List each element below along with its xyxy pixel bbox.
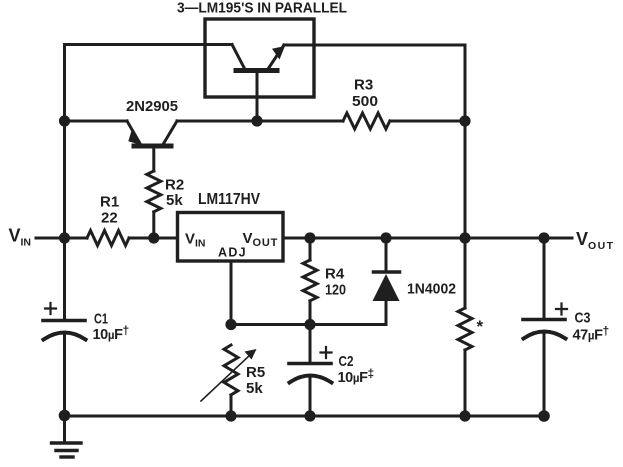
diode D1 cathode bar (374, 270, 400, 274)
svg-text:22: 22 (101, 210, 118, 227)
wire: VIN node to R1 (65, 237, 88, 240)
diode D1 body (373, 274, 400, 301)
node: right rail output junction (459, 232, 470, 243)
wire: U1 VOUT to output rail (285, 237, 572, 240)
wire: output rail to C3 (543, 238, 546, 318)
wire: left rail to 2N2905 emitter (65, 120, 128, 123)
svg-text:VIN: VIN (9, 226, 32, 249)
R5 wiper arrow (201, 355, 250, 401)
wire: U1 ADJ pin (230, 262, 233, 325)
LM195 module box (205, 19, 314, 97)
svg-text:5k: 5k (166, 192, 183, 209)
svg-text:R3: R3 (354, 77, 373, 94)
svg-text:R5: R5 (246, 364, 265, 381)
wire: Q1 base to R2 (152, 148, 155, 171)
svg-text:10µF‡: 10µF‡ (338, 367, 374, 387)
wire: R1 to LM117 VIN pin (129, 237, 177, 240)
node: ADJ / R5 junction (225, 319, 236, 330)
wire: C3 to ground (543, 332, 546, 416)
IC U1 LM117HV box (178, 213, 284, 262)
resistor R1 (87, 231, 129, 246)
wire: 2N2905 collector to R3 (177, 120, 343, 123)
node: R4 bottom / C2 top (304, 319, 315, 330)
wire: star resistor to ground (464, 350, 467, 416)
svg-text:VOUT: VOUT (576, 229, 614, 252)
wire: right rail to star resistor (464, 238, 467, 308)
resistor R2 (147, 171, 161, 212)
svg-text:ADJ: ADJ (218, 246, 247, 260)
svg-text:47µF†: 47µF† (573, 324, 609, 344)
node: R2 bottom junction (148, 232, 159, 243)
svg-text:2N2905: 2N2905 (126, 98, 178, 115)
svg-text:1N4002: 1N4002 (407, 281, 456, 298)
wire: right rail mid (464, 121, 467, 238)
wire: C2 to ground (309, 376, 312, 416)
wire: left rail mid (63, 121, 66, 238)
capacitor C3 plus sign (556, 304, 567, 315)
resistor R4 (303, 260, 317, 301)
svg-text:R1: R1 (100, 194, 119, 211)
transistor U2 base lead wire (256, 72, 259, 121)
node: right rail ground junction (459, 410, 470, 421)
wire: ADJ rail to C2 (309, 325, 312, 363)
svg-text:5k: 5k (246, 380, 263, 397)
wire: left rail to C1 (63, 238, 66, 319)
node: right rail / R3 (459, 115, 470, 126)
wire: R3 to right rail (390, 120, 465, 123)
svg-text:3—LM195'S IN PARALLEL: 3—LM195'S IN PARALLEL (177, 1, 347, 17)
svg-text:C1: C1 (94, 311, 108, 328)
wire: R5 bottom lead (230, 395, 233, 416)
node: C3 ground junction (538, 410, 550, 422)
capacitor C2 top plate (289, 362, 331, 366)
svg-text:C2: C2 (339, 353, 354, 370)
node: R4 top (304, 232, 315, 243)
wire: VIN lead (36, 237, 65, 240)
svg-text:120: 120 (325, 282, 346, 299)
transistor Q1 collector lead (163, 121, 177, 145)
node: C3 top (538, 232, 549, 243)
transistor U2 emitter lead with arrow (268, 45, 284, 69)
diode D1 1N4002 top lead (385, 238, 388, 272)
resistor * (preload) (458, 308, 472, 350)
transistor U2 (LM195) collector lead (232, 45, 245, 70)
resistor R3 (343, 113, 390, 129)
node: base drive / R3 junction (251, 115, 262, 126)
wire: R4 bottom lead (309, 301, 312, 325)
resistor R5 (adjustable) (224, 345, 238, 395)
transistor Q1 2N2905 emitter with arrow (127, 121, 140, 144)
wire: R4 top lead (309, 238, 312, 260)
node: R5 ground junction (225, 410, 236, 421)
ground symbol (63, 415, 66, 442)
capacitor C1 plus sign (45, 303, 56, 314)
svg-text:R2: R2 (165, 177, 184, 194)
capacitor C1 top plate (43, 319, 85, 323)
transistor Q1 base bar (134, 144, 171, 149)
capacitor C3 top plate (523, 318, 565, 322)
wire: top rail left segment (65, 45, 233, 122)
node: C2 ground junction (304, 410, 315, 421)
wire: ADJ rail (231, 300, 386, 325)
svg-text:VIN: VIN (185, 231, 206, 250)
svg-text:500: 500 (352, 93, 378, 110)
transistor U2 base bar (236, 68, 277, 73)
capacitor C2 bottom plate (290, 376, 332, 383)
node: ground left (59, 410, 71, 422)
svg-text:LM117HV: LM117HV (198, 191, 260, 208)
node: left rail top junction (59, 115, 70, 126)
svg-text:R4: R4 (325, 266, 345, 283)
wire: ground rail (65, 415, 545, 418)
node: diode top (380, 232, 391, 243)
capacitor C2 plus sign (321, 347, 332, 358)
svg-text:*: * (477, 317, 484, 336)
capacitor C1 bottom plate (44, 333, 86, 340)
wire: R2 to input rail (152, 212, 155, 238)
svg-text:10µF†: 10µF† (93, 324, 129, 344)
svg-text:C3: C3 (575, 310, 591, 327)
wire: top rail right segment (284, 45, 465, 121)
svg-text:VOUT: VOUT (243, 230, 279, 249)
wire: C1 to ground (63, 333, 66, 415)
node: VIN junction on left rail (59, 232, 70, 243)
capacitor C3 bottom plate (524, 332, 566, 339)
